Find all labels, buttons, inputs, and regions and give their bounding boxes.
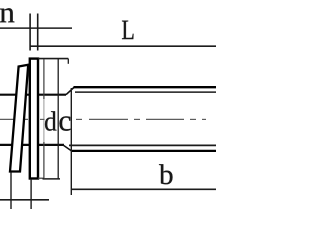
bottom-left dimension line (0, 199, 49, 201)
thread major diameter line, top (74, 86, 217, 88)
centerline left segment (0, 118, 28, 120)
label b (159, 164, 173, 184)
d dimension bottom bar (43, 178, 61, 180)
label n (0, 8, 14, 22)
spring washer (slanted, side view) (10, 65, 28, 172)
bottom chamfer at thread start (63, 145, 71, 151)
thread minor diameter line, top (75, 91, 216, 93)
shank bottom outline (runs behind washers) (0, 144, 64, 146)
extension line below spring washer (10, 172, 12, 209)
dimension line n (0, 27, 72, 29)
thread major diameter line, bottom (71, 150, 216, 152)
second washer right edge upper segment (43, 59, 45, 99)
flat washer (30, 59, 38, 179)
dimension line L (30, 45, 216, 47)
label L (122, 21, 134, 40)
label c (59, 116, 70, 130)
second washer right edge middle segment (faint) (43, 99, 45, 142)
tick at end of top bar (67, 59, 69, 64)
extension line below flat washer (30, 180, 32, 209)
thread minor diameter line, bottom (69, 144, 216, 146)
centerline dashes (40, 118, 45, 120)
second washer bottom edge (38, 177, 44, 179)
d dimension vertical line (57, 59, 59, 179)
top chamfer at thread start (66, 87, 74, 94)
second washer right edge lower segment (43, 142, 45, 178)
b extension line (70, 88, 72, 195)
extension line from washer right edge (37, 14, 39, 51)
label d (45, 111, 56, 130)
shank top outline (runs behind washers) (0, 94, 66, 96)
second washer top edge merged with d dimension top bar (38, 58, 68, 60)
extension line from washer left edge (29, 14, 31, 51)
b dimension line (72, 188, 216, 190)
